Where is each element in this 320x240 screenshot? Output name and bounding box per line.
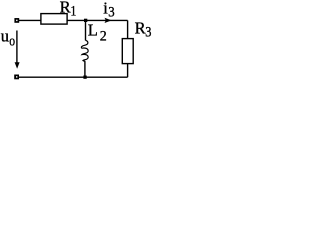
svg-text:o: o [9,34,15,50]
svg-text:2: 2 [100,29,107,45]
svg-text:L: L [88,21,98,40]
svg-text:R: R [135,19,146,38]
svg-text:1: 1 [70,3,76,19]
svg-text:3: 3 [145,25,151,41]
svg-text:u: u [1,27,9,46]
svg-text:3: 3 [108,5,114,21]
svg-text:R: R [60,0,71,17]
